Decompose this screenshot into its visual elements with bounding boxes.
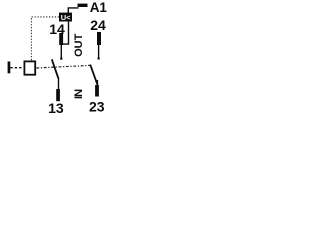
svg-text:IN: IN: [73, 89, 85, 99]
svg-text:13: 13: [48, 100, 64, 116]
svg-text:24: 24: [90, 17, 106, 33]
svg-text:23: 23: [89, 98, 105, 114]
svg-text:OUT: OUT: [73, 33, 85, 57]
svg-text:A1: A1: [90, 0, 108, 15]
